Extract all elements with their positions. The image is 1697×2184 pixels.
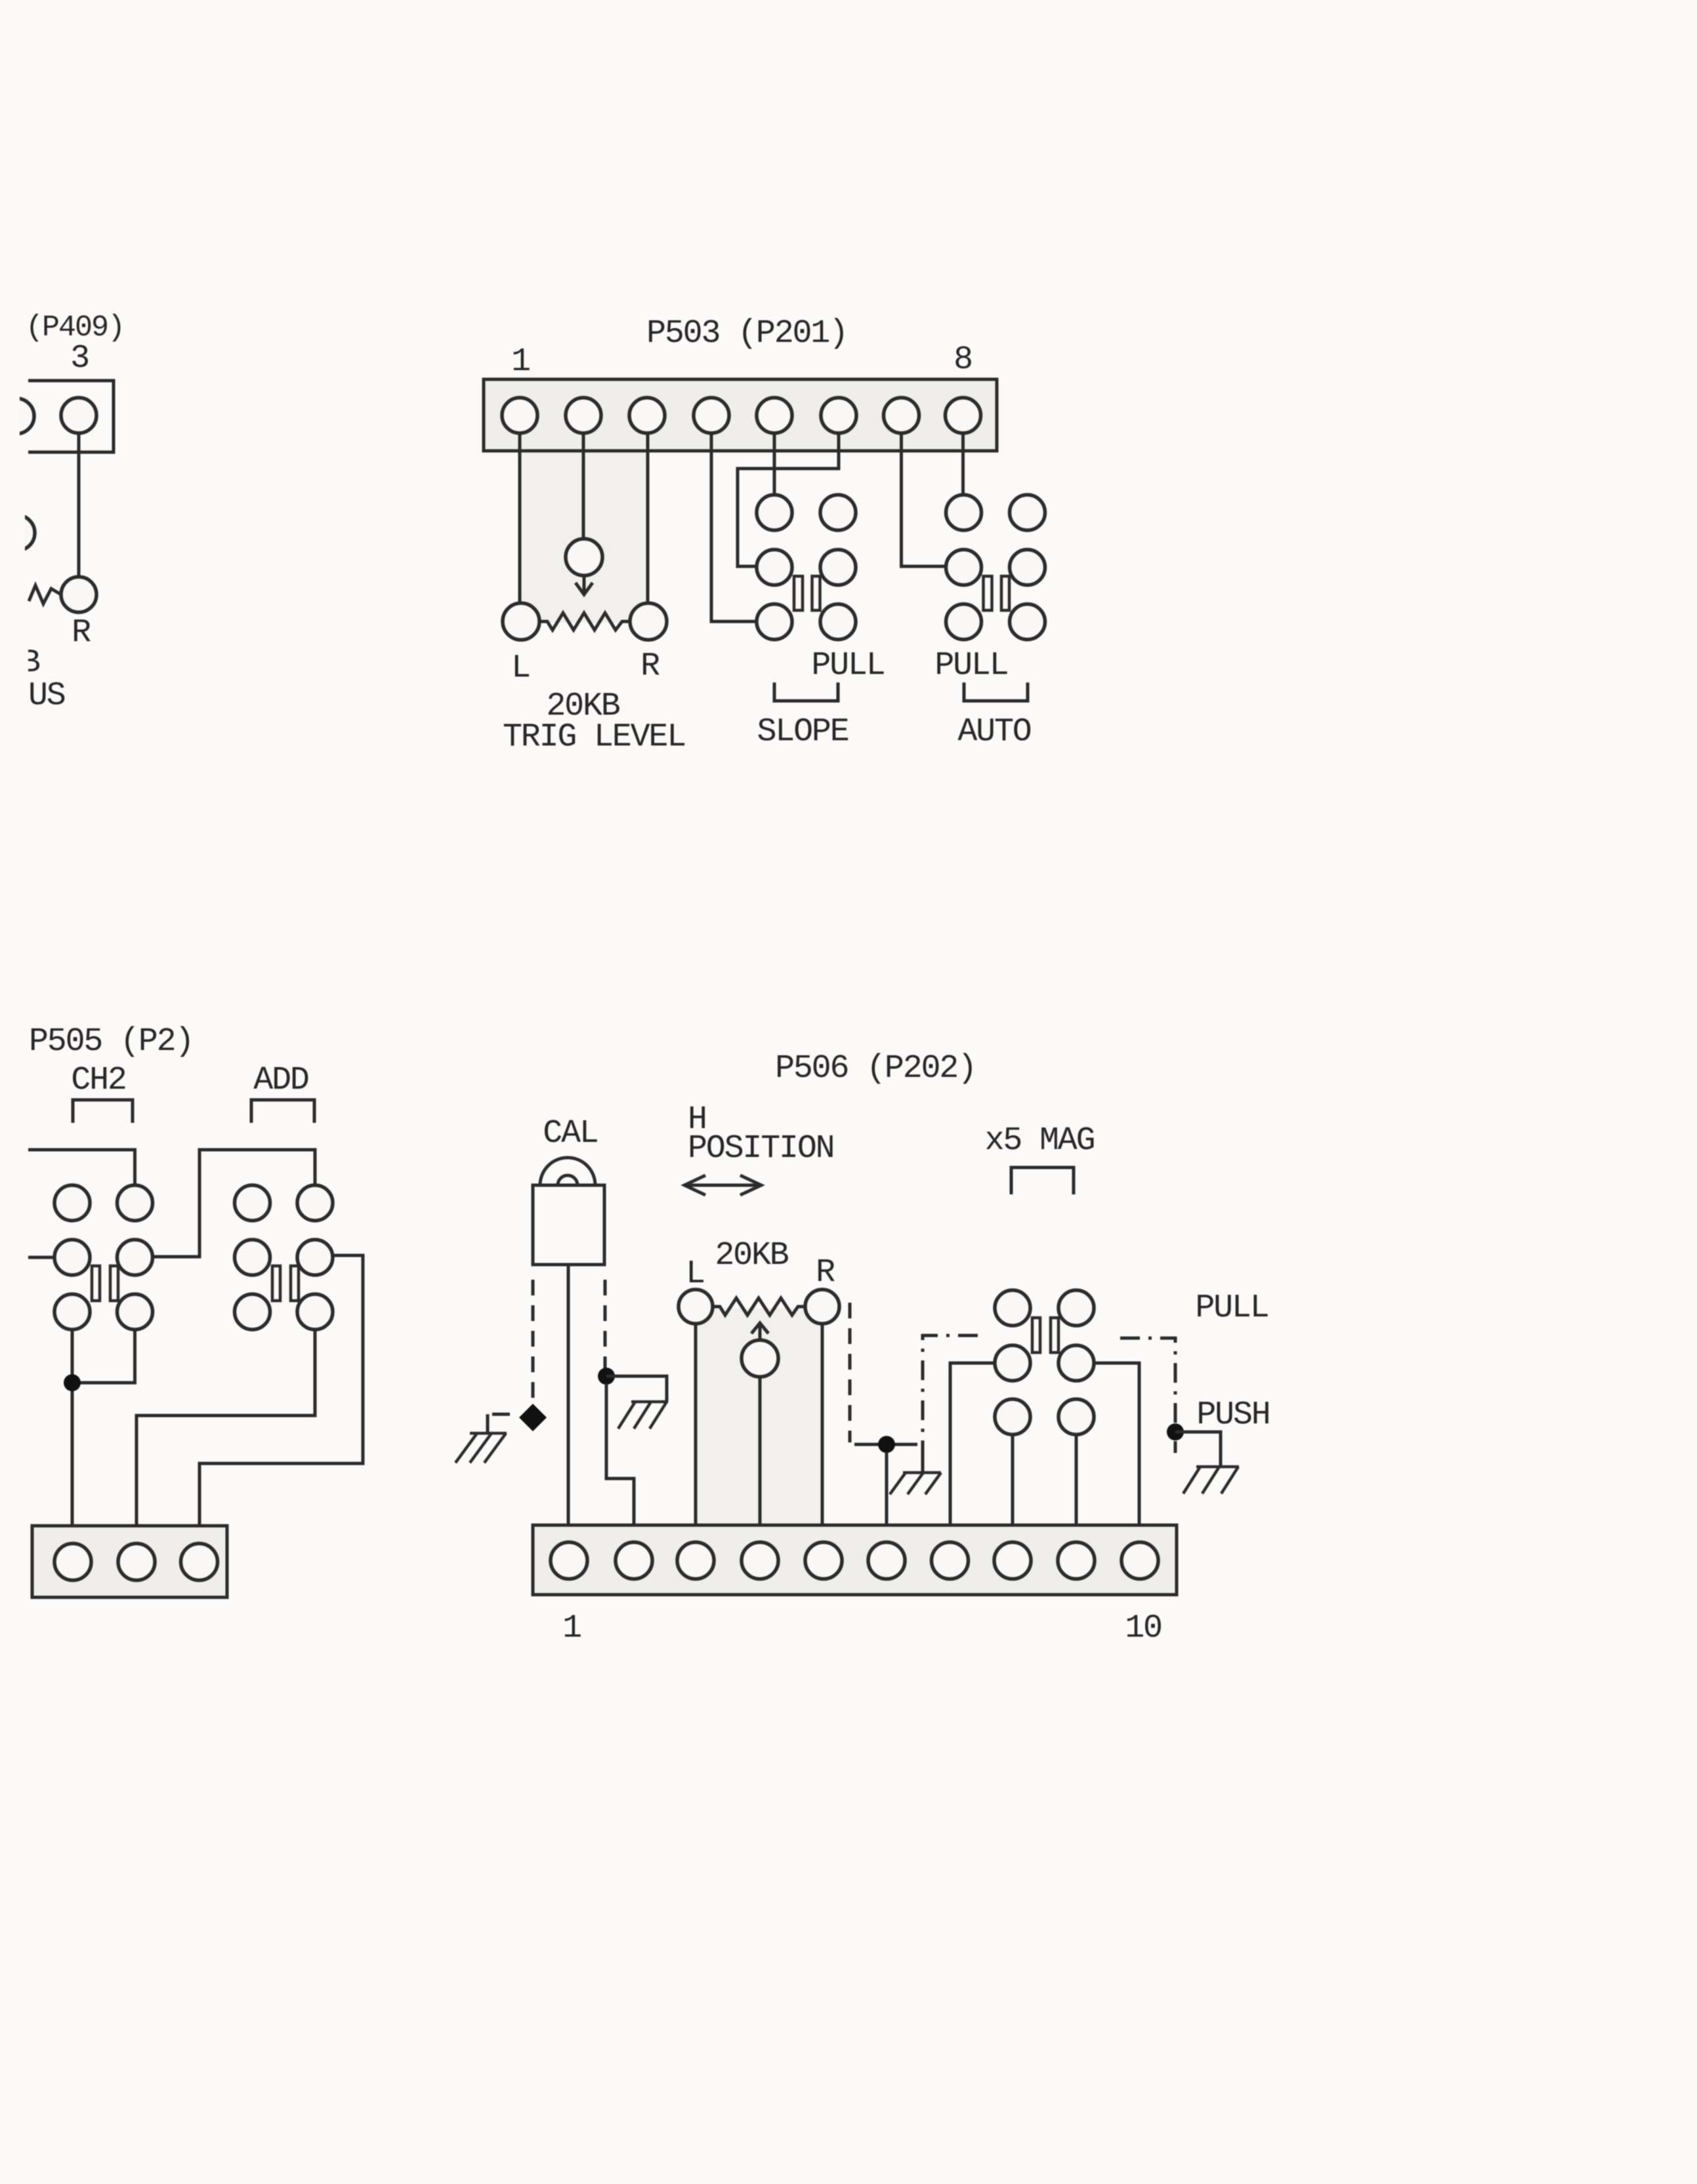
svg-text:20KB: 20KB [715,1237,788,1274]
svg-text:x5 MAG: x5 MAG [985,1122,1095,1160]
svg-text:TRIG LEVEL: TRIG LEVEL [503,719,685,756]
svg-text:CH2: CH2 [71,1062,125,1099]
svg-text:POSITION: POSITION [688,1130,833,1167]
svg-text:R: R [640,648,660,685]
svg-text:10: 10 [1125,1610,1162,1647]
svg-text:PULL: PULL [811,647,884,684]
svg-text:1: 1 [511,343,530,381]
svg-text:R: R [816,1254,835,1291]
svg-text:AUTO: AUTO [957,713,1030,751]
svg-text:R: R [72,614,91,652]
svg-text:L: L [511,650,530,687]
svg-text:CAL: CAL [543,1115,597,1152]
svg-text:8: 8 [953,341,972,379]
svg-text:SLOPE: SLOPE [757,713,848,751]
svg-text:US: US [28,677,65,715]
svg-text:PULL: PULL [934,647,1007,684]
svg-text:ADD: ADD [253,1062,308,1099]
svg-text:P506 (P202): P506 (P202) [775,1050,976,1087]
svg-text:L: L [686,1255,704,1293]
svg-text:P505 (P2): P505 (P2) [29,1023,193,1060]
svg-text:PUSH: PUSH [1196,1396,1269,1434]
svg-text:P503 (P201): P503 (P201) [646,315,847,352]
svg-text:3: 3 [70,340,89,377]
svg-text:PULL: PULL [1195,1290,1268,1327]
svg-text:1: 1 [562,1610,581,1647]
